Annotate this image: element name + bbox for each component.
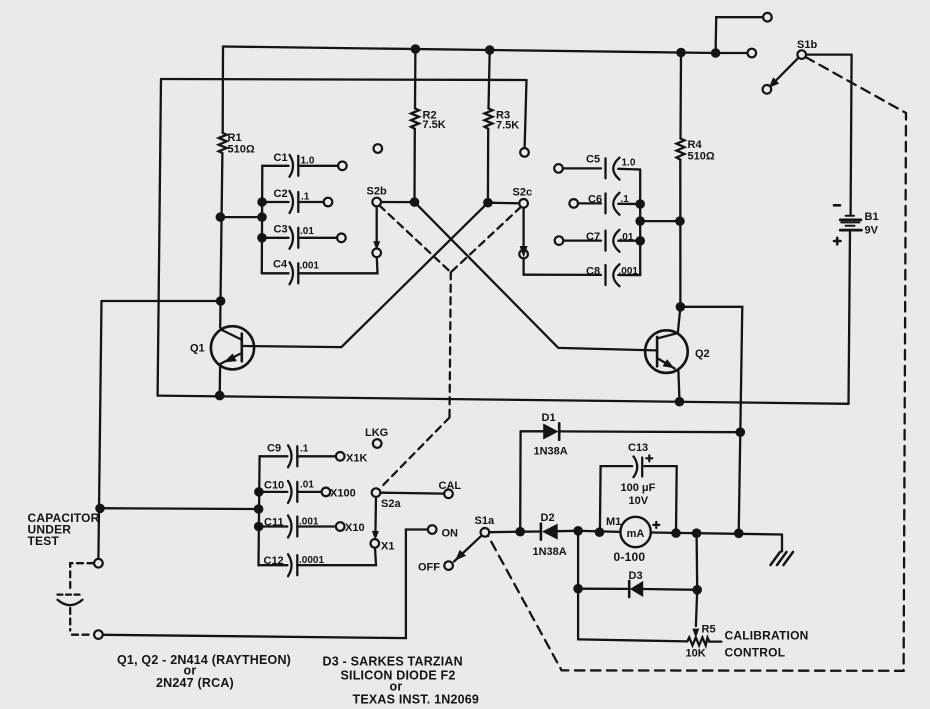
wire C3 branch xyxy=(262,237,289,239)
svg-text:X1K: X1K xyxy=(346,453,367,465)
wire C4 branch to S2b lower contact xyxy=(262,272,289,274)
wire C11 branch xyxy=(259,525,288,527)
svg-text:0-100: 0-100 xyxy=(614,550,646,564)
wire C6 branch xyxy=(578,202,601,204)
junction D3 anode xyxy=(573,584,583,594)
wire S1b pole arm xyxy=(772,58,799,85)
wire C7 branch xyxy=(563,239,601,241)
junction S1a-D2-D1 node xyxy=(515,527,525,537)
wire rail to R4 xyxy=(679,53,682,139)
wire S1a pole to D2 xyxy=(489,531,520,534)
wire cross link S2c node to Q1 base xyxy=(242,203,488,347)
terminal circle C2 xyxy=(324,198,333,207)
junction S2b node on R2 xyxy=(410,197,420,207)
junction top rail R4 xyxy=(676,48,686,58)
wire S1 ganged linkage dashed loop xyxy=(488,57,906,671)
wire S1a pole arm to OFF xyxy=(454,535,482,561)
capacitor C3 .01 xyxy=(290,227,299,249)
svg-text:S2a: S2a xyxy=(381,498,401,510)
svg-text:10K: 10K xyxy=(686,648,706,660)
junction D3 cathode xyxy=(692,585,702,595)
wire Q2 collector node link xyxy=(680,307,742,534)
svg-text:CONTROL: CONTROL xyxy=(725,646,786,660)
wire C10 branch xyxy=(259,491,288,493)
terminal circle capacitor under test bottom xyxy=(94,630,103,639)
wire C5-C8 bus xyxy=(639,170,641,276)
svg-text:Q1: Q1 xyxy=(190,343,205,355)
wire R1 to Q1 collector node xyxy=(221,153,223,301)
svg-text:LKG: LKG xyxy=(365,427,388,439)
potentiometer R5 wiper arrow xyxy=(692,629,699,638)
svg-text:X100: X100 xyxy=(330,488,356,500)
terminal circle OFF xyxy=(444,561,453,570)
switch S2c arm arrowhead xyxy=(520,246,528,258)
resistor R3 7.5K xyxy=(485,109,493,129)
switch S2b lower contact xyxy=(372,249,381,258)
svg-text:9V: 9V xyxy=(865,225,879,237)
svg-text:.001: .001 xyxy=(300,261,320,272)
junction Q2 collector node xyxy=(676,302,686,312)
C13 plus polarity mark xyxy=(646,455,652,461)
wire S2 ganged linkage dashed V xyxy=(380,206,521,489)
wire Q1 collector to test terminal xyxy=(102,300,221,302)
svg-text:mA: mA xyxy=(627,528,645,540)
junction top rail R2 xyxy=(411,44,421,54)
battery B1 9V xyxy=(834,205,861,244)
capacitor C13 100uF 10V xyxy=(634,457,643,478)
junction feed C9-C12 bus xyxy=(254,504,264,514)
svg-text:CALIBRATION: CALIBRATION xyxy=(725,629,809,643)
svg-text:TEST: TEST xyxy=(28,534,60,548)
capacitor C11 .001 xyxy=(288,516,297,538)
wire R4 to Q2 collector node xyxy=(679,160,681,307)
svg-text:C9: C9 xyxy=(267,443,281,455)
wire C5 branch xyxy=(563,167,601,169)
wire second rail drop to S2c contact xyxy=(525,80,527,148)
svg-text:1.0: 1.0 xyxy=(301,156,315,167)
svg-text:S1b: S1b xyxy=(797,39,817,51)
meter M1 mA 0-100 xyxy=(620,517,659,547)
junction C3 bus xyxy=(257,233,267,243)
wire S2 linkage dashed vertical xyxy=(450,272,451,417)
svg-text:D2: D2 xyxy=(541,512,555,524)
svg-text:C8: C8 xyxy=(586,266,600,278)
terminal circle LKG xyxy=(373,439,382,448)
svg-text:.0001: .0001 xyxy=(299,555,324,566)
switch S1a pole contact xyxy=(481,528,490,537)
wire S2c lower contact to C8 branch xyxy=(522,258,524,274)
junction C6 bus xyxy=(635,199,645,209)
svg-text:C12: C12 xyxy=(264,555,284,567)
svg-text:CAL: CAL xyxy=(439,480,462,492)
svg-text:C3: C3 xyxy=(274,224,288,236)
switch S2b arm arrowhead xyxy=(373,241,380,250)
wire C2 branch xyxy=(262,201,289,203)
wire left feedback vertical xyxy=(158,79,161,396)
terminal circle S1b top contact xyxy=(763,13,772,22)
switch S2a pole contact xyxy=(372,488,381,497)
junction S2c node on R3 xyxy=(483,198,493,208)
wire S2c pole arm down xyxy=(522,208,524,247)
wire test terminal vertical xyxy=(98,301,101,559)
svg-text:Q1, Q2 - 2N414 (RAYTHEON): Q1, Q2 - 2N414 (RAYTHEON) xyxy=(117,653,291,667)
wire C9-C12 bus xyxy=(259,456,260,565)
svg-text:C2: C2 xyxy=(274,188,288,200)
svg-text:ON: ON xyxy=(442,528,459,540)
switch S1b arm arrowhead xyxy=(769,77,779,88)
diode D2 1N38A xyxy=(541,524,558,540)
svg-text:.001: .001 xyxy=(619,266,639,277)
terminal circle C5 xyxy=(554,164,563,173)
wire R5 wiper vertical xyxy=(696,590,697,626)
svg-text:C1: C1 xyxy=(274,152,288,164)
capacitor C2 .1 xyxy=(290,191,299,213)
wire R3 to S2c node xyxy=(487,129,490,203)
wire top supply rail xyxy=(223,47,716,54)
capacitor C10 .01 xyxy=(288,481,297,503)
svg-text:R5: R5 xyxy=(702,624,716,636)
wire meter line left xyxy=(578,531,620,532)
junction feed bus right xyxy=(635,216,645,226)
switch S1a arm arrowhead xyxy=(455,550,466,561)
capacitor C1 1.0 xyxy=(290,155,299,177)
wire D1 loop left vertical xyxy=(519,431,522,531)
svg-text:S1a: S1a xyxy=(475,515,495,527)
wire S2b pole arm down xyxy=(376,206,378,244)
wire Q1 emitter lead xyxy=(219,366,222,395)
wire cross link S2b node to Q2 base xyxy=(415,202,658,350)
wire D1 anode xyxy=(521,430,544,432)
svg-text:1N38A: 1N38A xyxy=(533,546,567,558)
wire ON contact to lower run xyxy=(103,530,428,639)
wire bottom emitter rail xyxy=(158,396,849,404)
svg-text:510Ω: 510Ω xyxy=(228,144,255,156)
svg-text:C13: C13 xyxy=(628,442,648,454)
wire Q2 emitter lead xyxy=(678,371,679,402)
wire R2 to S2b node xyxy=(413,129,416,202)
svg-text:R1: R1 xyxy=(228,132,242,144)
wire R5 bottom loop xyxy=(578,639,687,641)
junction C11 bus xyxy=(254,522,264,532)
junction D3 left top xyxy=(573,526,583,536)
svg-text:1N38A: 1N38A xyxy=(534,446,568,458)
svg-text:.1: .1 xyxy=(301,192,310,203)
wire Q2 collector lead xyxy=(678,307,681,333)
junction capacitor under test tap xyxy=(95,504,105,514)
resistor R2 7.5K xyxy=(411,109,419,129)
wire D3 loop left vertical xyxy=(577,531,579,640)
junction Q1 emitter rail xyxy=(215,391,225,401)
capacitor C5 1.0 xyxy=(606,158,620,180)
diode D3 xyxy=(629,581,643,597)
svg-text:TEXAS INST. 1N2069: TEXAS INST. 1N2069 xyxy=(353,693,480,707)
terminal circle C3 xyxy=(337,234,346,243)
wire C5-C8 bus to R4 xyxy=(640,220,680,222)
junction C13 left xyxy=(595,527,605,537)
junction C7 bus xyxy=(635,236,645,246)
svg-text:or: or xyxy=(390,680,403,694)
wire C1-C4 bus xyxy=(261,166,264,273)
svg-text:.01: .01 xyxy=(620,232,634,243)
wire rail to R2 xyxy=(414,49,417,109)
wire capacitor under test dashed leads xyxy=(70,563,93,635)
wire C13 loop xyxy=(600,466,632,532)
terminal circle C7 xyxy=(555,236,564,245)
wire S2 linkage dashed diagonal to S2a xyxy=(380,418,450,489)
wire C1 branch xyxy=(262,165,288,167)
capacitor C4 .001 xyxy=(290,262,299,284)
junction C2 bus xyxy=(257,197,267,207)
junction D1 cathode node xyxy=(736,427,746,437)
wire rail to S1b lower contact xyxy=(716,52,748,54)
junction C13 right xyxy=(671,528,681,538)
svg-text:R4: R4 xyxy=(688,139,703,151)
terminal circle ON xyxy=(428,525,437,534)
wire D3 anode side xyxy=(578,588,629,591)
svg-text:10V: 10V xyxy=(629,495,649,507)
svg-text:.1: .1 xyxy=(621,194,630,205)
transistor Q2 xyxy=(645,330,688,373)
terminal circle X10 xyxy=(336,522,345,531)
svg-text:2N247 (RCA): 2N247 (RCA) xyxy=(156,676,234,690)
svg-text:C10: C10 xyxy=(264,480,284,492)
wire S2a pole arm down xyxy=(374,497,377,535)
junction top rail S1b corner xyxy=(711,48,721,58)
junction D3 right top xyxy=(692,528,702,538)
svg-text:OFF: OFF xyxy=(418,562,440,574)
svg-text:S2c: S2c xyxy=(513,187,533,199)
svg-text:D3 - SARKES TARZIAN: D3 - SARKES TARZIAN xyxy=(323,655,463,669)
junction R4 tap xyxy=(675,216,685,226)
switch S1b pole contact xyxy=(797,50,806,59)
wire S2a pole to CAL contact xyxy=(381,492,444,495)
svg-text:100 μF: 100 μF xyxy=(621,482,656,494)
svg-text:X10: X10 xyxy=(345,522,365,534)
svg-text:Q2: Q2 xyxy=(695,348,710,360)
terminal circle X1 xyxy=(371,539,380,548)
wire D2 anode side xyxy=(520,530,540,533)
capacitor C6 .1 xyxy=(606,193,620,215)
wire C9 branch xyxy=(260,455,288,457)
switch S2c lower contact xyxy=(519,250,528,259)
wire test feed to C9-C12 bus xyxy=(99,507,258,510)
wire ground drop xyxy=(781,535,783,552)
switch S2a arm arrowhead xyxy=(372,531,379,540)
svg-text:.1: .1 xyxy=(300,444,309,455)
terminal circle above S2c xyxy=(520,148,529,157)
svg-text:X1: X1 xyxy=(381,541,394,553)
wire D1 cathode to Q2 collector line xyxy=(559,430,740,433)
capacitor C8 .001 xyxy=(606,264,620,286)
switch S2b pole contact xyxy=(372,198,381,207)
terminal circle capacitor under test top xyxy=(94,559,103,568)
svg-text:C5: C5 xyxy=(586,154,600,166)
wire rail corner up to S1b upper contact xyxy=(716,17,764,53)
svg-text:C7: C7 xyxy=(586,231,600,243)
terminal circle CAL xyxy=(444,490,453,499)
terminal circle X100 xyxy=(322,488,331,497)
svg-text:C6: C6 xyxy=(588,194,602,206)
wire R1 branch top (rail to R1) xyxy=(222,47,225,134)
wire Q1 base node to C1-C4 bus xyxy=(220,216,262,218)
svg-text:D1: D1 xyxy=(542,412,556,424)
capacitor C7 .01 xyxy=(606,230,620,252)
wire D2 to meter line xyxy=(558,530,578,533)
svg-text:1.0: 1.0 xyxy=(622,158,636,169)
junction C10 bus xyxy=(254,487,264,497)
svg-text:B1: B1 xyxy=(865,211,879,223)
wire D3 cathode side xyxy=(643,588,697,591)
svg-text:7.5K: 7.5K xyxy=(496,120,519,132)
wire S2c pole to R3 node xyxy=(488,202,519,205)
svg-text:.01: .01 xyxy=(300,226,314,237)
terminal circle C6 xyxy=(569,199,578,208)
junction top rail R3 xyxy=(485,45,495,55)
diode D1 1N38A xyxy=(543,423,559,439)
ground symbol xyxy=(771,552,794,565)
svg-text:D3: D3 xyxy=(629,570,643,582)
junction Q2 emitter rail xyxy=(675,397,685,407)
resistor R1 510ohm xyxy=(219,133,227,153)
wire S1b pole to battery top xyxy=(806,55,852,215)
terminal circle X1K xyxy=(336,452,345,461)
wire C12 branch up to X1 contact xyxy=(259,564,288,566)
potentiometer R5 10K xyxy=(687,637,709,645)
terminal circle C1 xyxy=(338,162,347,171)
junction Q1 base bus tap xyxy=(216,212,226,222)
wire D3 right vertical to meter line xyxy=(695,533,698,590)
wire meter line right to ground xyxy=(651,533,782,535)
svg-text:.01: .01 xyxy=(300,480,314,491)
capacitor under test symbol xyxy=(58,595,83,606)
capacitor C9 .1 xyxy=(288,445,297,467)
wire S2b pole to R2 node xyxy=(381,201,415,203)
switch S2c pole contact xyxy=(519,199,528,208)
wire second rail horizontal xyxy=(161,79,527,80)
svg-text:510Ω: 510Ω xyxy=(688,151,715,163)
resistor R4 510ohm xyxy=(677,139,685,160)
terminal circle above S2b xyxy=(374,144,383,153)
wire battery bottom to emitter rail xyxy=(849,231,851,404)
transistor Q1 xyxy=(211,326,254,369)
svg-text:.001: .001 xyxy=(299,517,319,528)
switch S1b throw contact xyxy=(763,85,772,94)
wire R5 right stub xyxy=(709,640,721,642)
svg-text:7.5K: 7.5K xyxy=(423,119,446,131)
junction Q1 collector node xyxy=(216,296,226,306)
terminal circle S1b mid contact xyxy=(748,49,757,58)
junction meter line right xyxy=(734,529,744,539)
capacitor C12 .0001 xyxy=(288,554,297,576)
junction feed bus left xyxy=(257,212,267,222)
svg-text:C11: C11 xyxy=(264,517,284,529)
wire Q1 collector lead xyxy=(219,301,222,328)
svg-text:C4: C4 xyxy=(273,259,288,271)
svg-text:M1: M1 xyxy=(606,516,621,528)
svg-text:S2b: S2b xyxy=(367,186,387,198)
wire rail to R3 xyxy=(489,50,490,109)
